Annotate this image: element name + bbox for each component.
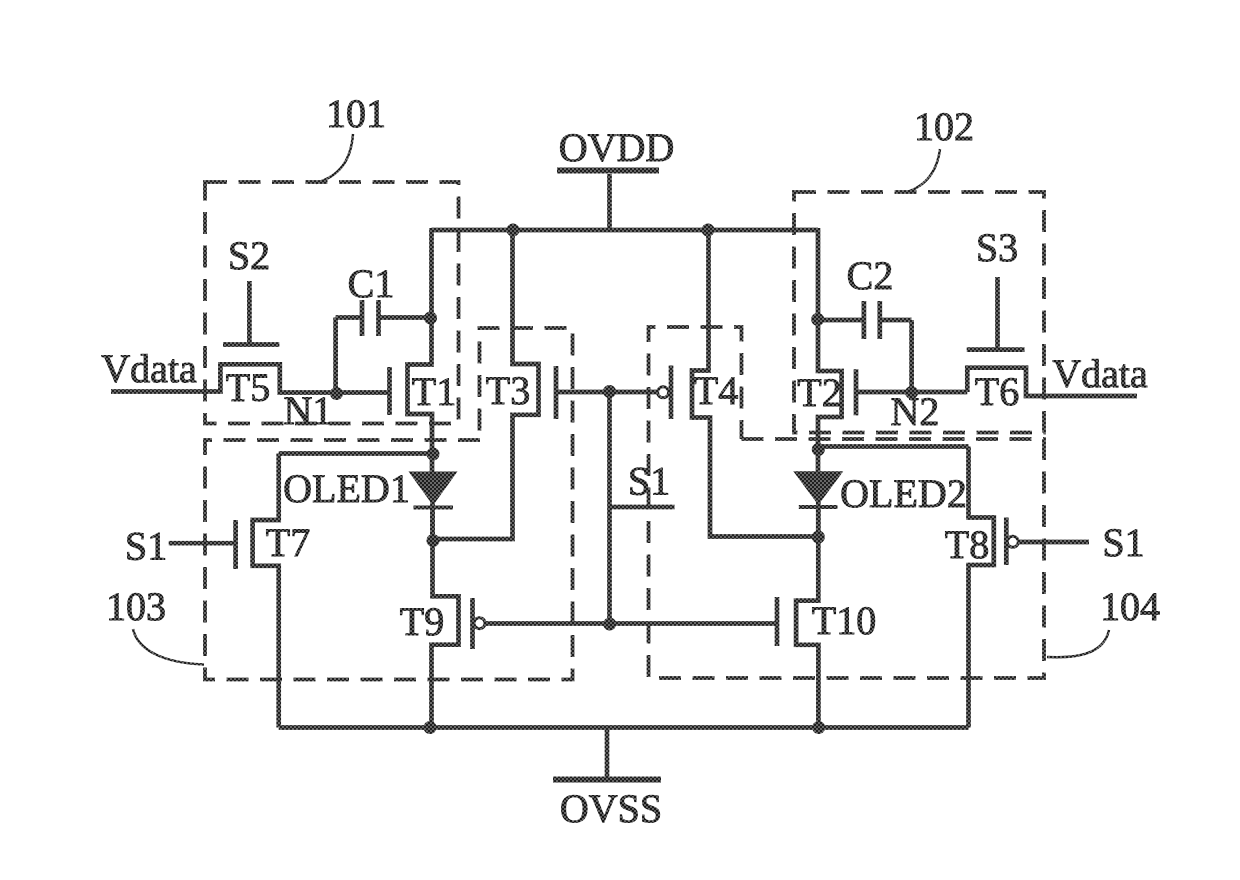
node T1-OLED1-T7 <box>427 448 440 461</box>
transistor T8 <box>969 447 994 728</box>
gate bar T9 <box>470 598 475 649</box>
box 104 with T4 extension <box>649 327 1045 678</box>
box 101 <box>205 182 459 424</box>
diode OLED2 <box>793 471 843 509</box>
leader curves <box>133 134 1109 665</box>
node rail-T3 <box>507 224 520 237</box>
dashed boxes <box>205 182 1044 680</box>
node S1-T9-T10 <box>603 618 616 631</box>
transistor T1 <box>408 228 433 472</box>
wire OVSS stub <box>605 728 610 778</box>
bubble T8 gate <box>1007 536 1018 547</box>
wire S1 right <box>1019 540 1089 545</box>
node C1-T1 <box>424 312 437 325</box>
box 103 with T3 extension <box>205 328 573 680</box>
wire OVDD stub <box>607 174 612 230</box>
node S1 gates <box>603 385 616 398</box>
node OLED1-T9-T3 <box>427 534 440 547</box>
wire N2 <box>856 390 967 395</box>
gate bar T10 <box>775 597 780 646</box>
wire node to T7 <box>279 451 433 456</box>
wire S1 net vertical <box>607 392 612 624</box>
gate bubbles <box>474 387 1018 629</box>
node OVSS-T10 <box>812 721 825 734</box>
leader 103 <box>133 629 204 665</box>
transistor T5 with Vdata wire <box>111 364 390 392</box>
wire S2 stub <box>247 281 252 343</box>
leader 101 <box>316 134 353 183</box>
wire node to T8 <box>818 444 968 449</box>
gate bar T5 <box>223 342 279 347</box>
gate bar T7 <box>233 520 238 569</box>
bubble T4 gate <box>658 387 669 398</box>
gate bar T4 <box>669 366 674 420</box>
transistor T6 <box>967 368 1137 396</box>
wire node to T4 gate <box>610 390 658 395</box>
transistor T4 <box>692 228 818 537</box>
transistor T2 <box>818 228 842 471</box>
capacitor C2 <box>818 301 912 393</box>
capacitor C1 <box>336 300 431 393</box>
node OLED2-T10-T4 <box>812 531 825 544</box>
leader 102 <box>907 149 940 192</box>
wire S3 stub <box>995 277 1000 348</box>
node N1-C1 <box>330 387 343 400</box>
wire OLED1 cathode <box>430 472 435 541</box>
bubble T9 gate <box>474 618 485 629</box>
transistor T7 <box>253 454 279 728</box>
transistor T10 <box>796 509 818 728</box>
wire OLED2 cathode <box>816 471 821 537</box>
power bar OVDD <box>557 168 659 174</box>
terminal bar S1 <box>610 505 675 510</box>
gate bar T3 <box>554 366 559 419</box>
gate bar T1 <box>387 367 392 415</box>
node OVSS-T9 <box>424 721 437 734</box>
gate bar T8 <box>1004 518 1009 566</box>
wire T3 gate to node <box>558 390 610 395</box>
node N2-C2 <box>905 386 918 399</box>
box 102 <box>794 192 1044 433</box>
wire T9 T10 gates <box>486 621 778 626</box>
wire OVSS rail <box>279 725 969 730</box>
node C2-T2 <box>811 313 824 326</box>
wire S1 left <box>169 541 236 546</box>
transistor T9 <box>432 509 459 728</box>
node rail-T4 <box>702 224 715 237</box>
diode OLED1 <box>409 472 458 510</box>
gate bar T6 <box>967 347 1025 352</box>
transistor T3 <box>433 228 539 539</box>
node T2-OLED2-T8 <box>812 443 825 456</box>
wire top rail OVDD <box>432 228 819 233</box>
leader 104 <box>1047 630 1109 657</box>
gate bar T2 <box>854 369 859 415</box>
power bar OVSS <box>553 777 661 783</box>
